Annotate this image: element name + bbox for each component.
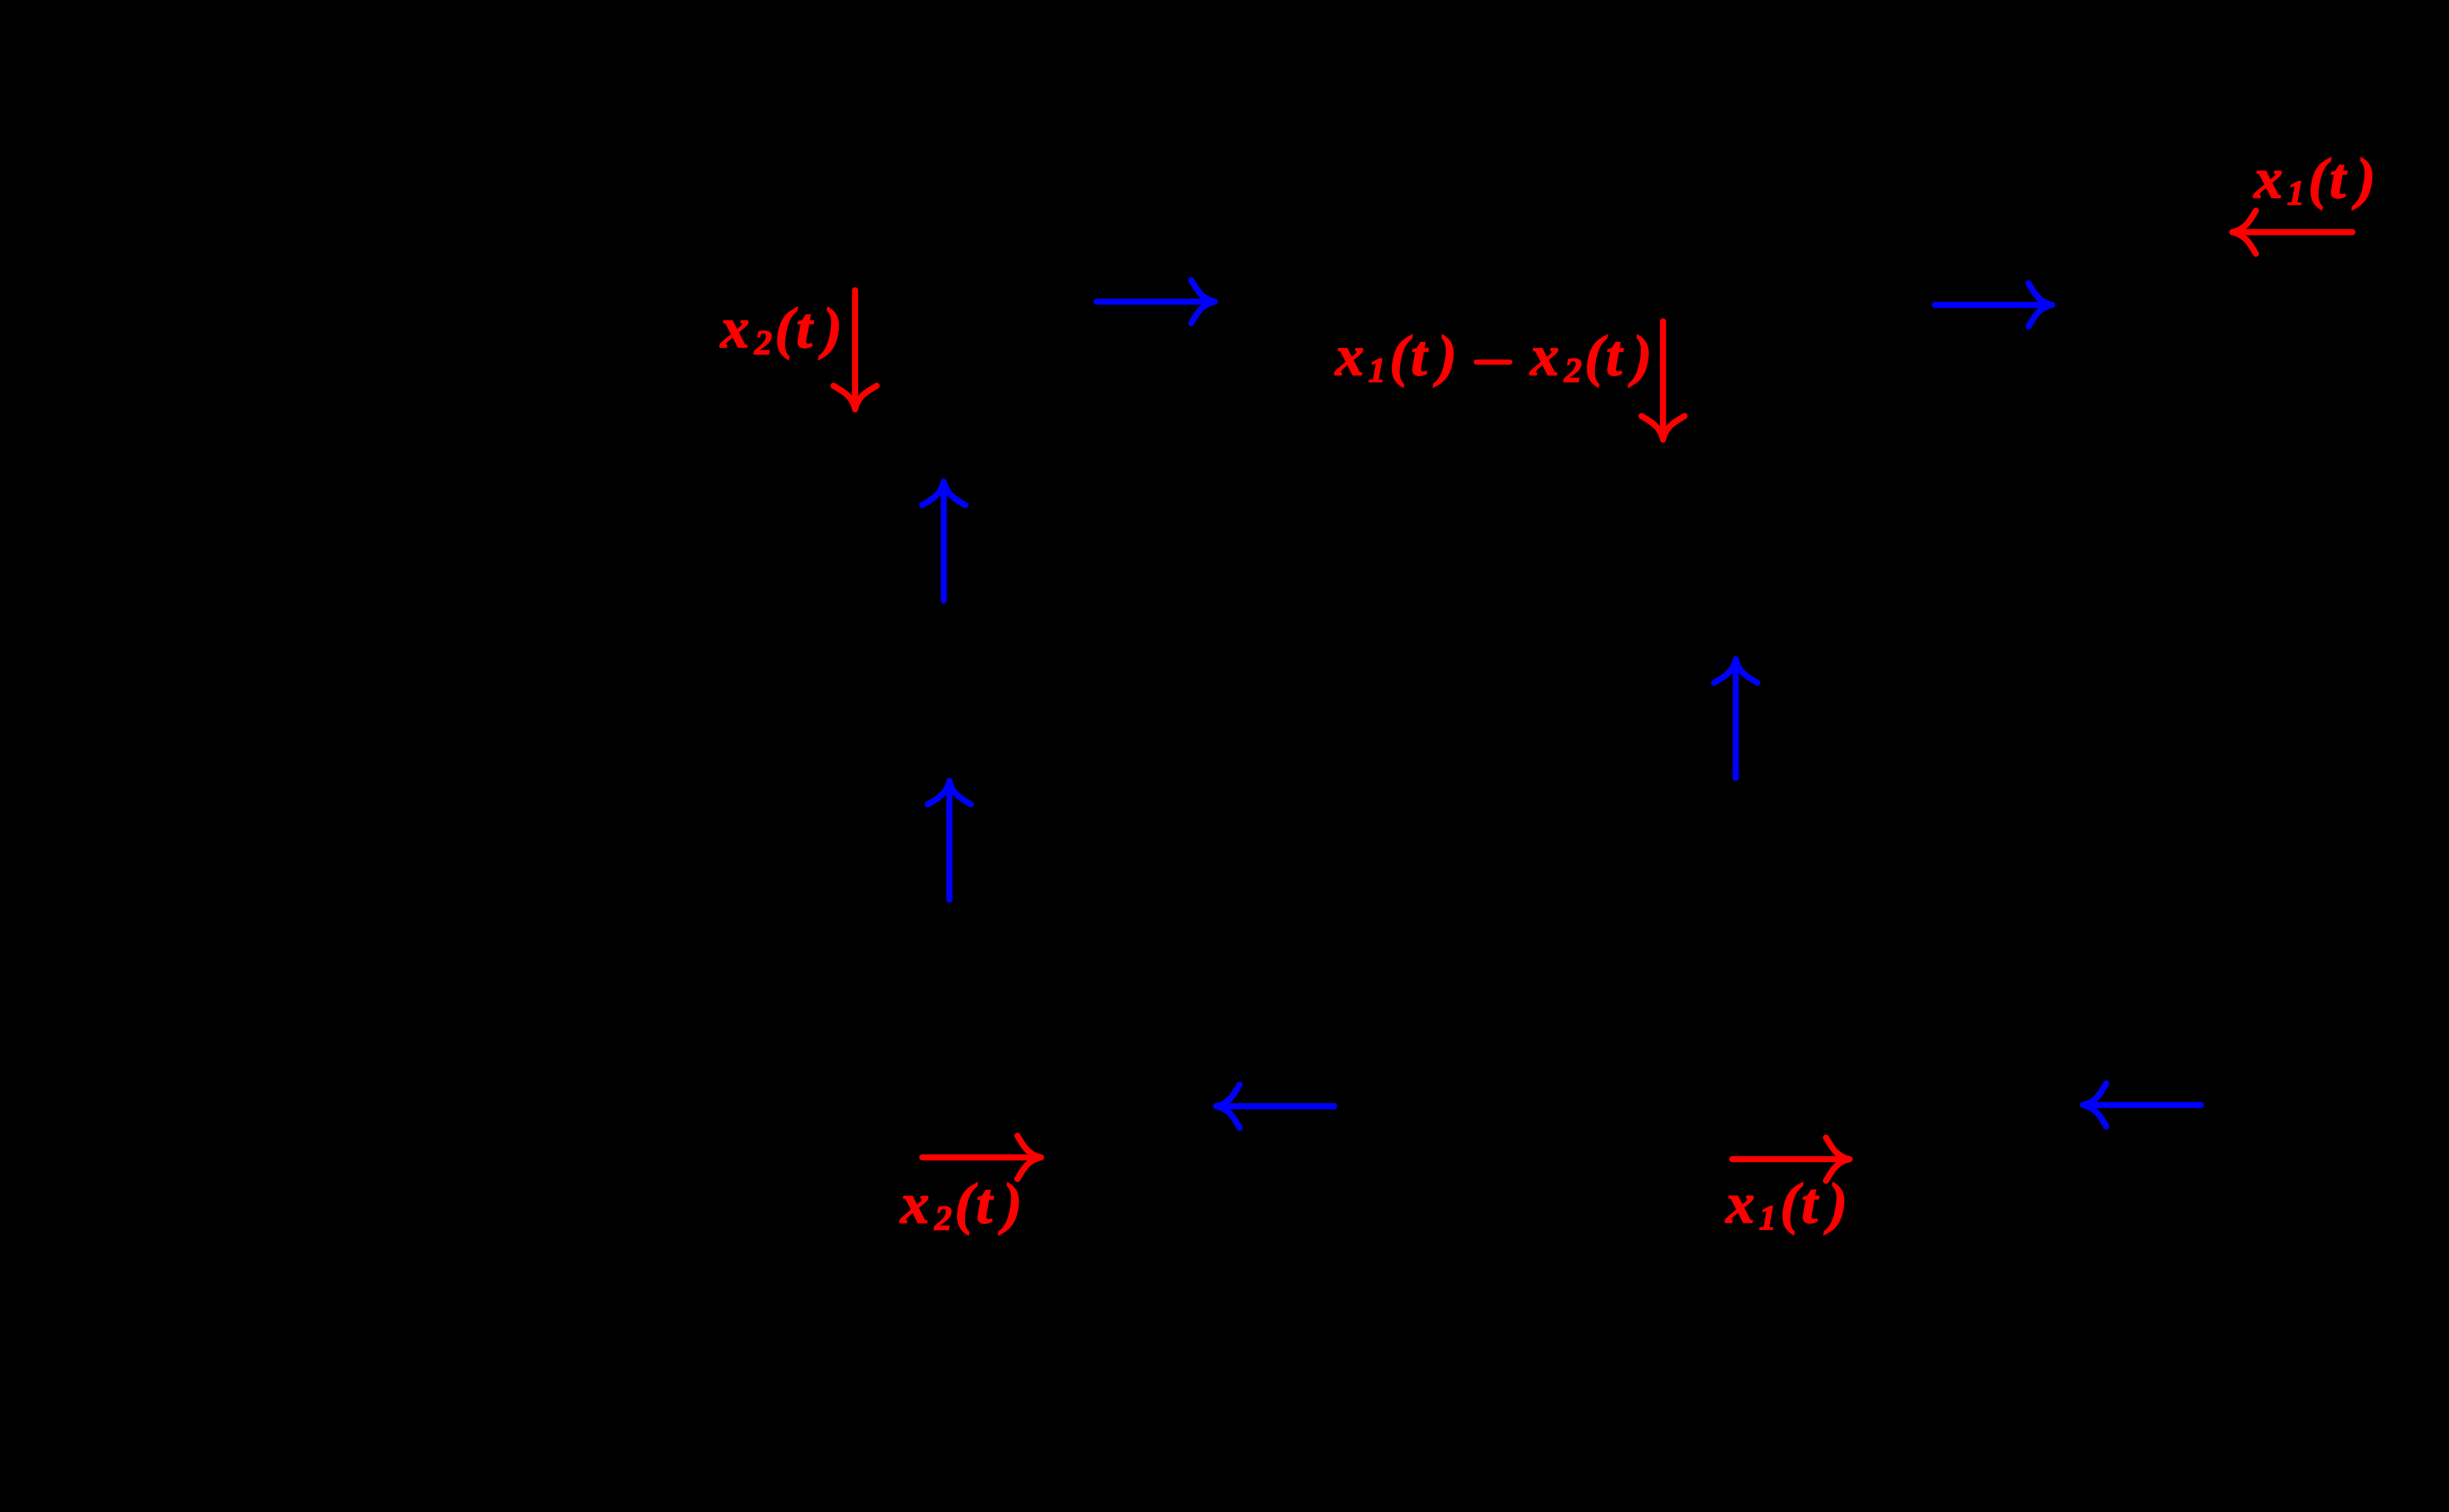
reaction arrow up lower left bbox=[928, 781, 971, 900]
force arrow x1-x2 down bbox=[1641, 321, 1684, 439]
svg-text:x: x bbox=[1334, 324, 1364, 388]
svg-text:x: x bbox=[720, 296, 749, 360]
svg-text:2: 2 bbox=[754, 324, 772, 362]
label x1(t)-x2(t) spring force bbox=[1334, 324, 1652, 390]
svg-text:t: t bbox=[1606, 324, 1624, 388]
displacement arrow x2 right bottom bbox=[922, 1136, 1041, 1179]
svg-text:x: x bbox=[1725, 1171, 1755, 1235]
velocity arrow v2 right bbox=[1097, 280, 1215, 323]
force arrow x2(t) down bbox=[834, 290, 877, 409]
svg-text:x: x bbox=[899, 1172, 929, 1236]
label x2(t) bottom bbox=[899, 1172, 1022, 1238]
reaction arrow left bottom second bbox=[2083, 1083, 2201, 1127]
svg-text:2: 2 bbox=[1564, 352, 1582, 390]
svg-text:1: 1 bbox=[2287, 174, 2305, 213]
label x1(t) top bbox=[2253, 146, 2376, 213]
displacement arrow x1 right bottom bbox=[1732, 1138, 1849, 1181]
svg-text:t: t bbox=[796, 296, 814, 360]
reaction arrow up left spring bbox=[922, 481, 965, 600]
svg-text:t: t bbox=[1801, 1171, 1819, 1235]
force arrow x1(t) left bbox=[2233, 211, 2353, 254]
svg-text:t: t bbox=[976, 1172, 994, 1236]
svg-text:1: 1 bbox=[1759, 1199, 1777, 1237]
svg-text:1: 1 bbox=[1369, 352, 1386, 390]
svg-text:x: x bbox=[1529, 324, 1559, 388]
svg-text:2: 2 bbox=[934, 1200, 952, 1238]
reaction arrow left bottom first bbox=[1216, 1085, 1334, 1128]
svg-text:t: t bbox=[2329, 146, 2347, 211]
label x2(t) force on mass m2 top bbox=[720, 296, 842, 362]
svg-text:t: t bbox=[1411, 324, 1429, 388]
velocity arrow v1 right bbox=[1935, 284, 2052, 327]
reaction arrow up middle bbox=[1714, 659, 1757, 778]
svg-text:x: x bbox=[2253, 146, 2283, 211]
label x1(t) bottom bbox=[1725, 1171, 1848, 1237]
